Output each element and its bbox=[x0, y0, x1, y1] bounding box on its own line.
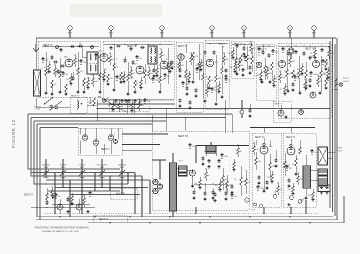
svg-text:SECT 'L': SECT 'L' bbox=[101, 148, 111, 151]
wire mesh m7 bbox=[70, 194, 140, 196]
resistor R13 bbox=[159, 68, 161, 76]
left bus bundle wire 3 bbox=[34, 121, 40, 184]
svg-text:.1: .1 bbox=[209, 91, 211, 93]
filler part F4 2M bbox=[234, 61, 236, 64]
svg-text:PILOT: PILOT bbox=[343, 78, 350, 80]
svg-text:.01: .01 bbox=[280, 189, 283, 191]
resistor R5 bbox=[77, 52, 79, 68]
resistor R38 bbox=[222, 168, 224, 176]
svg-text:.01: .01 bbox=[66, 79, 69, 81]
wire mesh drops bbox=[54, 184, 56, 214]
capacitor C24 bbox=[302, 52, 305, 56]
filler part M1 100K bbox=[189, 144, 191, 145]
sect D top bus bbox=[257, 45, 275, 47]
faint scan artifact top-left bbox=[70, 4, 162, 17]
switch lever bbox=[45, 98, 53, 104]
svg-text:SECT 'U': SECT 'U' bbox=[255, 137, 265, 139]
filler part A9 .002 bbox=[92, 75, 94, 78]
arrow pot wiper bbox=[138, 101, 141, 104]
terminal circled 8 bbox=[245, 198, 249, 202]
capacitor C27 bbox=[114, 99, 117, 103]
filler part E2 3K bbox=[211, 88, 213, 89]
tube V16 output bbox=[260, 146, 268, 154]
resistor R6b bbox=[83, 78, 86, 86]
svg-text:.002: .002 bbox=[331, 53, 335, 55]
filler part B4 .1 bbox=[123, 71, 125, 74]
capacitor C20 bbox=[261, 51, 264, 55]
filler part B3 470K bbox=[116, 76, 118, 77]
socket X8 bbox=[273, 194, 277, 198]
sect A top bus bbox=[42, 46, 99, 48]
filler part X2 50 bbox=[55, 194, 57, 195]
ground g3b bbox=[64, 93, 67, 96]
capacitor C19 bbox=[241, 68, 244, 72]
svg-text:.1: .1 bbox=[285, 50, 287, 52]
ground g11 bbox=[214, 103, 217, 106]
filler part C1 25K bbox=[178, 59, 180, 62]
svg-text:50: 50 bbox=[292, 164, 294, 166]
filler part M4 470K bbox=[221, 154, 223, 155]
ground g17 bbox=[318, 92, 321, 95]
resistor R15 bbox=[185, 60, 187, 70]
socket X7b bbox=[190, 170, 196, 176]
left bus bundle wire 4 bbox=[37, 124, 46, 217]
resistor R29 bbox=[292, 70, 295, 78]
filler part F2 10K bbox=[238, 59, 240, 62]
filler part D2 .002 bbox=[260, 69, 262, 72]
capacitor C1 bbox=[50, 56, 53, 60]
resistor R42 bbox=[269, 154, 271, 163]
resistor R2 bbox=[51, 80, 54, 88]
wire below B dashes bbox=[103, 98, 174, 100]
svg-text:50: 50 bbox=[208, 175, 210, 177]
wire l1 bbox=[79, 128, 81, 135]
resistor R28 bbox=[286, 56, 288, 70]
filler part W9 .01 bbox=[314, 47, 316, 50]
resistor R25 bbox=[251, 56, 254, 64]
svg-text:SECT 'W': SECT 'W' bbox=[305, 48, 316, 51]
resistor R7 bbox=[107, 74, 110, 82]
wire L-to-M 3 bbox=[122, 149, 152, 151]
svg-text:SECT 'T': SECT 'T' bbox=[275, 103, 283, 105]
filler part M2 5M bbox=[199, 177, 201, 180]
wire mesh m3 bbox=[34, 175, 142, 177]
wire v1 bbox=[295, 155, 297, 158]
pilot lamp bbox=[339, 83, 342, 86]
rectifier socket X7 bbox=[153, 188, 158, 193]
svg-text:2M: 2M bbox=[80, 71, 83, 73]
svg-text:6K7: 6K7 bbox=[99, 51, 102, 53]
filler part B7 1M bbox=[140, 77, 142, 80]
capacitor Cu2 bbox=[274, 159, 277, 163]
capacitor C11c bbox=[170, 61, 173, 65]
junction dot p1 bbox=[327, 80, 329, 82]
ground g4 bbox=[98, 91, 101, 94]
capacitor C30 bbox=[45, 201, 48, 205]
svg-text:1: 1 bbox=[79, 132, 80, 134]
ground g7 bbox=[158, 91, 161, 94]
capacitor C30b bbox=[51, 195, 54, 199]
capacitor C26 bbox=[308, 56, 311, 60]
resistor R20 bbox=[215, 55, 217, 75]
resistor R37 bbox=[46, 193, 49, 200]
ground g12b bbox=[207, 87, 210, 90]
resistor R40 bbox=[240, 166, 242, 177]
svg-text:250: 250 bbox=[258, 161, 261, 163]
socket X3 bbox=[108, 135, 114, 141]
svg-text:.1: .1 bbox=[86, 201, 88, 203]
mesh junction dots bbox=[62, 179, 64, 181]
filler part U1 .05 bbox=[253, 143, 255, 146]
filler part V2 500 bbox=[292, 183, 294, 186]
pickup coil L1 bbox=[78, 101, 79, 109]
capacitor C44 bbox=[325, 185, 328, 189]
section box SECT C bbox=[176, 42, 203, 112]
fuse F1 bbox=[254, 203, 257, 206]
left bus bundle wire 1 bbox=[28, 114, 120, 169]
rectifier socket X5 bbox=[153, 179, 158, 184]
filler part J24 220K bbox=[131, 100, 133, 103]
ground g12 bbox=[220, 96, 223, 99]
filler part W5 1M bbox=[294, 76, 296, 77]
svg-text:2: 2 bbox=[100, 139, 101, 141]
tube V9 bbox=[279, 61, 286, 68]
ground g13 bbox=[235, 73, 238, 76]
svg-text:.1: .1 bbox=[200, 54, 202, 56]
filler part E5 .05 bbox=[225, 78, 227, 79]
section box SECT V bbox=[283, 133, 316, 207]
speaker SP1 bbox=[318, 147, 328, 165]
antenna symbol bbox=[33, 48, 39, 52]
svg-text:.1: .1 bbox=[229, 165, 231, 167]
wire k1 bbox=[36, 104, 50, 107]
filler part A7 500 bbox=[80, 60, 82, 61]
filler part B11 .01 bbox=[160, 49, 162, 52]
svg-text:10: 10 bbox=[248, 182, 250, 184]
tube V15 bbox=[76, 204, 82, 210]
svg-text:25: 25 bbox=[284, 71, 286, 73]
socket X2 bbox=[93, 140, 99, 146]
bottom wire 3 bbox=[36, 219, 150, 221]
svg-text:.1: .1 bbox=[119, 77, 121, 79]
capacitor C27b bbox=[120, 99, 123, 103]
section box SECT K bbox=[70, 98, 87, 114]
terminal 6 circled callout bbox=[288, 26, 292, 30]
filler part W12 25K bbox=[327, 67, 329, 70]
section box SECT J bbox=[109, 99, 149, 111]
filler part X5 3K bbox=[89, 192, 91, 193]
filler part W8 10K bbox=[310, 72, 312, 73]
capacitor C40 bbox=[257, 176, 260, 180]
capacitor C17 bbox=[242, 47, 245, 51]
IF transformer T2 bbox=[148, 46, 157, 64]
svg-text:SECT 'X': SECT 'X' bbox=[24, 194, 34, 196]
svg-text:SECT 'V': SECT 'V' bbox=[286, 137, 296, 139]
tube V11 bbox=[310, 92, 316, 98]
capacitor C41 bbox=[265, 181, 268, 185]
terminal 3 circled callout bbox=[160, 26, 164, 30]
switch S1 bbox=[102, 99, 105, 102]
filler part D5 50 bbox=[273, 75, 275, 78]
wire mesh m4b bbox=[40, 183, 128, 185]
capacitor C28 bbox=[127, 99, 130, 103]
filler part J21 47K bbox=[112, 99, 114, 102]
sect B top bus bbox=[104, 44, 173, 46]
resistor R43 bbox=[284, 153, 286, 161]
filler part M6 3K bbox=[237, 145, 239, 148]
svg-text:.002: .002 bbox=[256, 75, 260, 77]
resistor R27 bbox=[271, 62, 274, 70]
rectifier socket X6 bbox=[157, 184, 162, 189]
ground g23 bbox=[262, 190, 265, 193]
capacitor A extra bbox=[54, 60, 58, 63]
svg-text:.002: .002 bbox=[185, 84, 189, 86]
junction dots bottom buses bbox=[59, 216, 61, 218]
svg-text:47: 47 bbox=[236, 59, 238, 61]
wire x2 bbox=[59, 199, 61, 204]
filler part W3 3K bbox=[284, 83, 286, 86]
section box SECT R bbox=[110, 188, 137, 199]
svg-text:1M: 1M bbox=[205, 77, 208, 79]
wire mid2 bbox=[126, 100, 128, 114]
right vertical wire 1 bbox=[329, 41, 331, 208]
svg-text:.05: .05 bbox=[128, 102, 131, 104]
pot R36 wiper bbox=[89, 97, 91, 104]
wire sp1 bbox=[311, 169, 319, 171]
resistor R19 bbox=[208, 76, 211, 84]
capacitor C38 bbox=[211, 191, 214, 195]
filler part X1 5M bbox=[51, 187, 53, 190]
capacitor C2 bbox=[59, 48, 62, 52]
section box SECT A bbox=[38, 41, 100, 97]
capacitor C25 bbox=[320, 48, 323, 52]
filler part M7 47K bbox=[231, 194, 233, 195]
svg-text:50: 50 bbox=[58, 196, 60, 198]
diagonal wire mid bbox=[98, 96, 126, 112]
svg-text:.05: .05 bbox=[44, 67, 47, 69]
section box SECT L bbox=[78, 128, 122, 155]
wire mesh m6 bbox=[48, 190, 120, 192]
wire l2 bbox=[79, 140, 81, 154]
tube V7 shielded bbox=[288, 48, 294, 54]
capacitor C42 bbox=[287, 179, 290, 183]
filler part B8 .05 bbox=[148, 67, 150, 70]
wire drop u bbox=[263, 207, 265, 214]
bottom wire 4 bbox=[88, 196, 344, 223]
resistor R41 bbox=[255, 152, 257, 158]
filler part A4 10K bbox=[62, 72, 64, 73]
section box SECT F bbox=[231, 41, 254, 78]
capacitor C33 bbox=[217, 159, 220, 163]
filler part A6 2M bbox=[74, 55, 76, 58]
sect E top bus bbox=[206, 43, 228, 45]
resistor R3 bbox=[59, 58, 61, 71]
terminal 4 circled callout bbox=[210, 26, 214, 30]
resistor R22 bbox=[235, 48, 237, 58]
junction j1 bbox=[121, 104, 123, 106]
svg-text:500: 500 bbox=[288, 189, 291, 191]
svg-text:50: 50 bbox=[269, 81, 271, 83]
filler part B12 2M bbox=[164, 74, 166, 75]
wire m-int2 bbox=[152, 159, 166, 161]
capacitor C13 bbox=[194, 89, 197, 93]
tube V6 bbox=[206, 59, 213, 66]
junction dots on buses bbox=[133, 113, 135, 115]
filler part E3 47K bbox=[218, 81, 220, 84]
filler part B2 50 bbox=[109, 53, 111, 56]
switch lever 2 bbox=[50, 101, 62, 110]
filler part U4 .01 bbox=[277, 183, 279, 186]
terminal 7 circled callout bbox=[312, 26, 316, 30]
resistor R39 bbox=[226, 175, 228, 181]
filter choke L2 bbox=[179, 166, 188, 176]
svg-text:47: 47 bbox=[166, 59, 168, 61]
filler part M8 1M bbox=[219, 179, 221, 182]
svg-text:SECT 'G': SECT 'G' bbox=[99, 219, 109, 221]
svg-text:5Y3: 5Y3 bbox=[179, 161, 182, 163]
filler part E4 1M bbox=[223, 53, 225, 56]
parts near x242 bbox=[240, 110, 244, 114]
output transformer T4 bbox=[303, 166, 311, 188]
resistor R34 bbox=[325, 78, 328, 86]
resistor R12 bbox=[144, 70, 147, 78]
capacitor C34 bbox=[213, 193, 216, 197]
filler part A1 1M bbox=[42, 58, 44, 59]
capacitor C18 bbox=[248, 66, 251, 70]
svg-text:©HOWARD W. SAMS & CO., INC. 19: ©HOWARD W. SAMS & CO., INC. 1946 bbox=[42, 230, 80, 233]
resistor R44 bbox=[295, 158, 298, 166]
ground g15 bbox=[286, 90, 289, 93]
speaker field coil L3 bbox=[318, 169, 328, 186]
right outer wire bbox=[150, 38, 337, 220]
ground g14 bbox=[260, 81, 263, 84]
filler part C5 50 bbox=[196, 68, 198, 69]
svg-text:.05: .05 bbox=[228, 80, 231, 82]
wire a4 bbox=[82, 56, 87, 58]
capacitor C21 bbox=[267, 54, 270, 58]
tube V13 bbox=[278, 110, 284, 116]
mid bus wire B bbox=[31, 117, 225, 119]
capacitor C-c2 bbox=[178, 99, 181, 103]
svg-text:500: 500 bbox=[253, 48, 256, 50]
capacitor C13b bbox=[178, 69, 181, 73]
filler part A10 100K bbox=[95, 54, 97, 55]
wire u2 bbox=[255, 140, 257, 145]
filler part W13 .002 bbox=[328, 47, 330, 50]
capacitor C31 bbox=[201, 157, 204, 161]
resistor R1 bbox=[45, 52, 47, 69]
svg-text:500: 500 bbox=[83, 62, 86, 64]
svg-text:10: 10 bbox=[79, 43, 81, 45]
filler part D1 25K bbox=[258, 48, 260, 49]
svg-text:25: 25 bbox=[55, 74, 57, 76]
filler part D3 100K bbox=[266, 67, 268, 70]
capacitor C4b bbox=[71, 77, 74, 81]
section box SECT T bbox=[273, 101, 291, 122]
bottom wire 2 bbox=[46, 216, 333, 218]
resistor R9 bbox=[120, 72, 123, 80]
capacitor C10 bbox=[123, 59, 126, 63]
right vertical wire 2 bbox=[332, 38, 334, 212]
svg-text:1M: 1M bbox=[162, 79, 165, 81]
resistor R30 bbox=[298, 56, 300, 71]
capacitor C11b bbox=[152, 69, 155, 73]
section box SECT B bbox=[103, 41, 174, 100]
filler part C3 100K bbox=[188, 71, 190, 74]
wire mid6 bbox=[224, 100, 226, 133]
wire mid3 bbox=[133, 102, 135, 114]
filler part F3 .01 bbox=[244, 56, 246, 57]
svg-text:SPKR: SPKR bbox=[337, 148, 343, 150]
svg-text:LIGHT: LIGHT bbox=[343, 81, 350, 83]
top bus wire bbox=[36, 37, 336, 39]
wire mid8 bbox=[231, 114, 233, 133]
ground g2 bbox=[58, 91, 61, 94]
filler part A5 .01 bbox=[70, 73, 72, 76]
tube V1 bbox=[65, 59, 73, 67]
svg-text:SECT 'M': SECT 'M' bbox=[178, 135, 188, 138]
filler part M5 .1 bbox=[233, 159, 235, 162]
filler part V5 100K bbox=[312, 189, 314, 192]
switch S2 bbox=[298, 199, 302, 203]
ground g16 bbox=[298, 92, 301, 95]
resistor R33 bbox=[325, 59, 328, 67]
wire L-to-M 2 bbox=[122, 144, 160, 146]
resistor R17 bbox=[198, 50, 200, 62]
svg-text:.01: .01 bbox=[147, 101, 150, 103]
mid bus wire F bbox=[97, 103, 175, 105]
tube V4 bbox=[160, 61, 168, 69]
resistor R31 bbox=[305, 70, 308, 78]
capacitor C4 bbox=[79, 44, 83, 47]
ground g20 bbox=[86, 210, 89, 213]
U V top wires bbox=[250, 127, 315, 129]
filler part W4 47K bbox=[289, 55, 291, 58]
trimmer C5b bbox=[90, 45, 93, 48]
socket X4 bbox=[114, 140, 118, 144]
junction dots x bbox=[46, 204, 48, 206]
trimmer C5 bbox=[55, 45, 58, 48]
filler part C6 470K bbox=[200, 59, 202, 62]
wire bm1 bbox=[194, 183, 226, 185]
svg-text:SECT 'B': SECT 'B' bbox=[127, 45, 137, 48]
capacitor C39 bbox=[224, 192, 227, 196]
terminal 5 circled callout bbox=[242, 26, 246, 30]
sect W top bus bbox=[279, 45, 330, 47]
capacitor C28b bbox=[133, 99, 136, 103]
svg-text:500: 500 bbox=[165, 67, 168, 69]
svg-text:.05: .05 bbox=[256, 149, 259, 151]
svg-text:3: 3 bbox=[114, 134, 115, 136]
capacitor C23 bbox=[294, 50, 297, 54]
tube V17 output bbox=[287, 147, 295, 155]
capacitor C7 bbox=[117, 44, 121, 47]
socket X9 bbox=[290, 196, 294, 200]
resistor R6 bbox=[99, 62, 101, 73]
terminal box bbox=[318, 185, 330, 192]
capacitor C6 bbox=[109, 46, 112, 50]
filler part B5 3K bbox=[130, 67, 132, 70]
filler part A8 25K bbox=[87, 77, 89, 80]
filler part A2 .05 bbox=[48, 61, 50, 64]
ground g18b bbox=[324, 68, 327, 71]
filler part W7 220K bbox=[304, 79, 306, 82]
filler part V1 2M bbox=[286, 166, 288, 167]
capacitor C32 bbox=[207, 159, 210, 163]
svg-text:.01: .01 bbox=[163, 55, 166, 57]
capacitor C15 bbox=[212, 51, 215, 55]
resistor R10 bbox=[127, 62, 129, 74]
